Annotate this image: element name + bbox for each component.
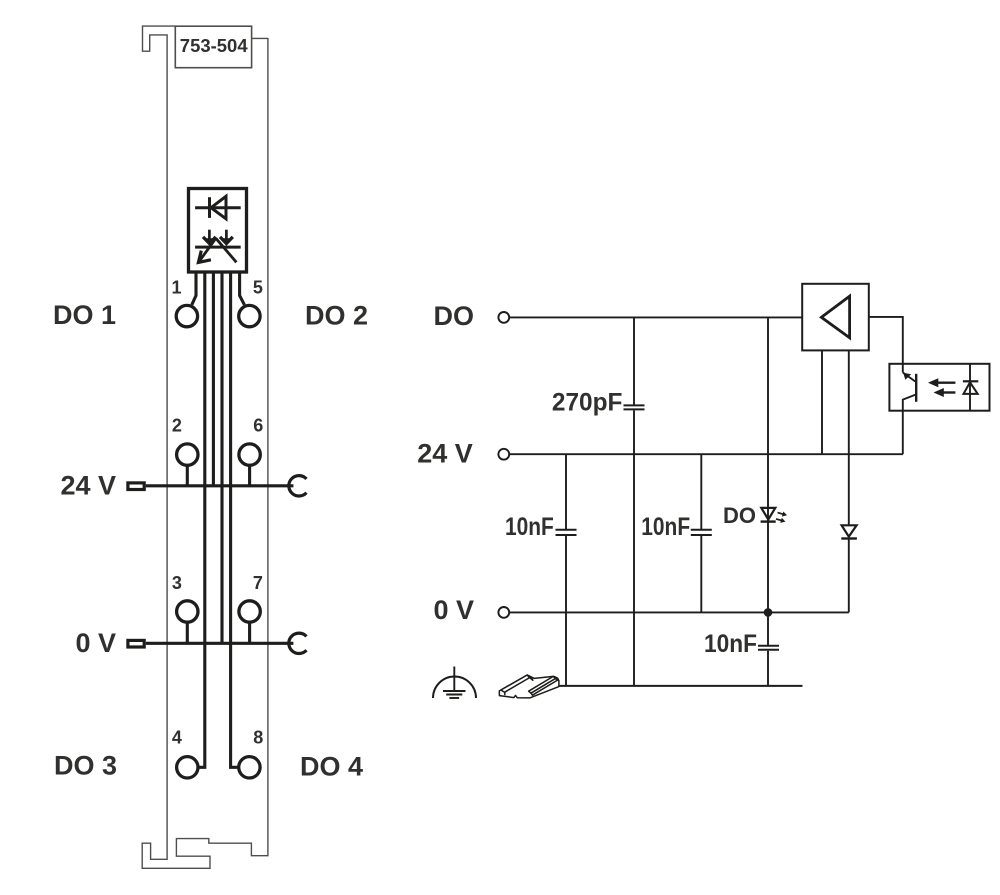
- capacitor C2 10nF: top leg: [565, 454, 567, 529]
- svg-text:24 V: 24 V: [417, 438, 473, 468]
- capacitor C4 10nF: bottom leg to earth rail: [767, 651, 769, 686]
- terminal 3: [177, 601, 198, 622]
- svg-text:3: 3: [172, 573, 182, 593]
- svg-text:DO 1: DO 1: [53, 300, 116, 330]
- optocoupler light arrow b: [942, 391, 955, 393]
- capacitor C3 10nF: top leg: [700, 454, 702, 529]
- wire to terminal 1: [192, 271, 196, 305]
- 24 V rail (module): socket arc: [289, 476, 307, 496]
- capacitor C4 10nF: plates: [758, 645, 779, 647]
- svg-text:5: 5: [253, 278, 263, 298]
- terminal 8: [239, 757, 260, 778]
- svg-text:0 V: 0 V: [75, 628, 116, 658]
- svg-text:0 V: 0 V: [433, 595, 474, 625]
- wire amp left leg to 24 V: [821, 350, 823, 454]
- wire amp output to optocoupler: [869, 317, 903, 364]
- svg-text:DO 2: DO 2: [305, 301, 368, 331]
- wire 24 V rail: [510, 453, 903, 455]
- suppressor diode D1: cathode bar: [208, 197, 211, 218]
- svg-text:10nF: 10nF: [505, 513, 554, 541]
- svg-text:DO 3: DO 3: [54, 751, 117, 781]
- terminal 5: [239, 305, 260, 326]
- capacitor C1 270pF: plates: [624, 404, 645, 406]
- optocoupler phototransistor: base bar: [915, 374, 917, 402]
- optocoupler light arrow a: [937, 382, 956, 384]
- svg-text:10nF: 10nF: [704, 630, 757, 658]
- optocoupler phototransistor: collector wire: [902, 364, 904, 373]
- wire amp right leg to diode D2: [848, 350, 850, 525]
- 24 V rail (module): plug rect: [128, 483, 144, 490]
- module outline: [142, 26, 268, 868]
- optocoupler phototransistor: collector diagonal with arrow: [903, 373, 916, 382]
- status LED diagonal: [216, 238, 237, 262]
- LED block box: [189, 189, 247, 273]
- svg-text:753-504: 753-504: [180, 36, 248, 56]
- capacitor C3 10nF: bottom leg to 0 V rail: [700, 536, 702, 612]
- svg-text:4: 4: [172, 728, 182, 748]
- svg-text:DO 4: DO 4: [300, 752, 363, 782]
- wire to terminal 5: [240, 271, 245, 305]
- label box 753-504: [175, 26, 251, 67]
- capacitor C1 270pF: top leg: [633, 317, 635, 404]
- junction dot 0V/LED: [764, 608, 773, 617]
- LED DO symbol: [761, 508, 775, 520]
- capacitor C1 270pF: bottom leg to earth rail: [633, 410, 635, 686]
- functional earth rail: [548, 685, 803, 687]
- svg-text:7: 7: [253, 573, 263, 593]
- svg-text:DO: DO: [434, 301, 475, 331]
- wire to terminal 8: [231, 271, 238, 768]
- ground symbol: [433, 676, 476, 698]
- 0 V rail (module): socket arc: [289, 633, 307, 653]
- optocoupler diode: triangle: [964, 382, 978, 394]
- svg-text:DO: DO: [723, 503, 756, 528]
- svg-text:24 V: 24 V: [60, 471, 116, 501]
- terminal 2 stem: [186, 465, 189, 486]
- svg-text:8: 8: [253, 728, 263, 748]
- terminal 7: [239, 601, 260, 622]
- LED DO branch wire: [767, 317, 769, 612]
- svg-text:2: 2: [172, 416, 182, 436]
- terminal 1: [176, 305, 197, 326]
- diode D2: [842, 525, 857, 536]
- 24 V rail (module): wire: [146, 484, 294, 487]
- DIN rail icon: [499, 675, 559, 698]
- optocoupler diode divider wire: [969, 364, 971, 411]
- wire diode D2 to 0 V rail: [848, 539, 850, 613]
- status LED diagonal arrow: [200, 238, 217, 261]
- status LEDs: bar: [195, 246, 241, 249]
- optocoupler diode: cathode bar: [963, 380, 978, 382]
- terminal 7 stem: [248, 622, 251, 643]
- suppressor diode D1: wire: [195, 206, 241, 209]
- svg-text:270pF: 270pF: [552, 388, 623, 416]
- wire to terminal 4: [199, 271, 205, 768]
- LED DO light arrows: [777, 510, 788, 518]
- terminal 3 stem: [186, 622, 189, 643]
- suppressor diode D1: triangle: [211, 196, 226, 219]
- wire to 24 V rail: [212, 271, 215, 486]
- optocoupler phototransistor: emitter diagonal: [903, 395, 916, 411]
- wire to 0 V rail: [220, 271, 223, 644]
- wire DO rail: [510, 316, 803, 318]
- svg-text:1: 1: [171, 278, 181, 298]
- 0 V rail (module): wire: [146, 642, 294, 645]
- capacitor C3 10nF: plates: [691, 529, 712, 531]
- wire 0 V rail: [510, 611, 849, 613]
- terminal 2: [177, 444, 198, 465]
- terminal 6: [239, 444, 260, 465]
- wire optocoupler emitter to 24 V rail end: [902, 411, 904, 455]
- 0 V rail (module): plug rect: [128, 640, 144, 647]
- terminal 6 stem: [248, 465, 251, 486]
- status LED arrow b: [225, 230, 228, 239]
- optocoupler U2 box: [889, 364, 989, 411]
- terminal 4: [177, 757, 198, 778]
- status LED arrow a: [208, 230, 211, 239]
- svg-text:10nF: 10nF: [641, 513, 690, 541]
- svg-text:6: 6: [253, 416, 263, 436]
- amplifier U1 box: [802, 284, 869, 351]
- capacitor C2 10nF: bottom leg to earth rail: [565, 536, 567, 686]
- capacitor C4 10nF: top leg from junction: [767, 612, 769, 645]
- amplifier U1 triangle: [821, 296, 849, 338]
- capacitor C2 10nF: plates: [556, 529, 577, 531]
